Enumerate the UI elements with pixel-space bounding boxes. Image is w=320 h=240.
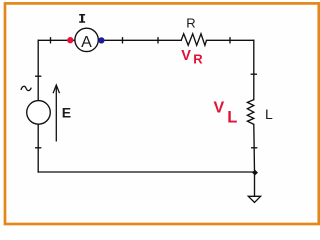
AC symbol ~ (sine squiggle) <box>21 86 31 90</box>
pin tick: resistor R right pin <box>229 38 231 43</box>
svg-text:R: R <box>186 15 195 30</box>
ammeter A (meter circle) <box>75 28 98 51</box>
svg-text:V: V <box>214 100 225 117</box>
inductor L (vertical zigzag) <box>247 100 253 125</box>
wire: left vertical segment (source E bottom to bottom corner) <box>37 124 39 172</box>
wire: top segment ammeter to resistor R <box>98 39 181 41</box>
pin tick: source E bottom pin <box>36 147 41 149</box>
source E (AC voltage source circle) <box>27 101 51 125</box>
label V_L (voltage across L) <box>214 100 238 127</box>
pin tick: source E top pin <box>36 75 41 77</box>
arrow: E reference direction <box>53 85 59 142</box>
label I (current) <box>79 14 85 23</box>
node dot: ammeter - terminal (blue) <box>98 37 104 43</box>
pin tick: resistor R left pin <box>157 38 159 43</box>
wire: junction to ground <box>254 172 256 196</box>
junction: node at bottom-right (wire T junction) <box>252 170 258 176</box>
wire: bottom horizontal segment <box>38 171 255 173</box>
wire: left vertical segment (corner to source E top) <box>37 40 39 100</box>
svg-text:A: A <box>81 34 92 51</box>
svg-text:V: V <box>181 48 191 64</box>
wire: top-left horizontal segment (node corner to ammeter) <box>38 39 75 41</box>
svg-text:R: R <box>193 52 203 67</box>
svg-text:L: L <box>265 106 273 122</box>
pin tick: inductor L top pin <box>251 73 256 75</box>
label V_R (voltage across R) <box>181 48 203 66</box>
wire: top segment resistor R to right corner <box>207 39 254 41</box>
pin tick: inductor L bottom pin <box>252 147 257 149</box>
resistor R (zigzag) <box>181 34 206 46</box>
pin tick: ammeter left pin <box>50 38 52 43</box>
pin tick: ammeter right pin <box>122 38 124 43</box>
wire: right vertical segment (corner to inductor L top) <box>253 40 255 99</box>
svg-text:E: E <box>62 104 71 120</box>
ground <box>248 196 260 202</box>
svg-text:L: L <box>227 109 237 127</box>
node dot: ammeter + terminal (red) <box>67 37 73 43</box>
wire: right vertical segment (inductor L bottom to junction) <box>253 124 256 172</box>
